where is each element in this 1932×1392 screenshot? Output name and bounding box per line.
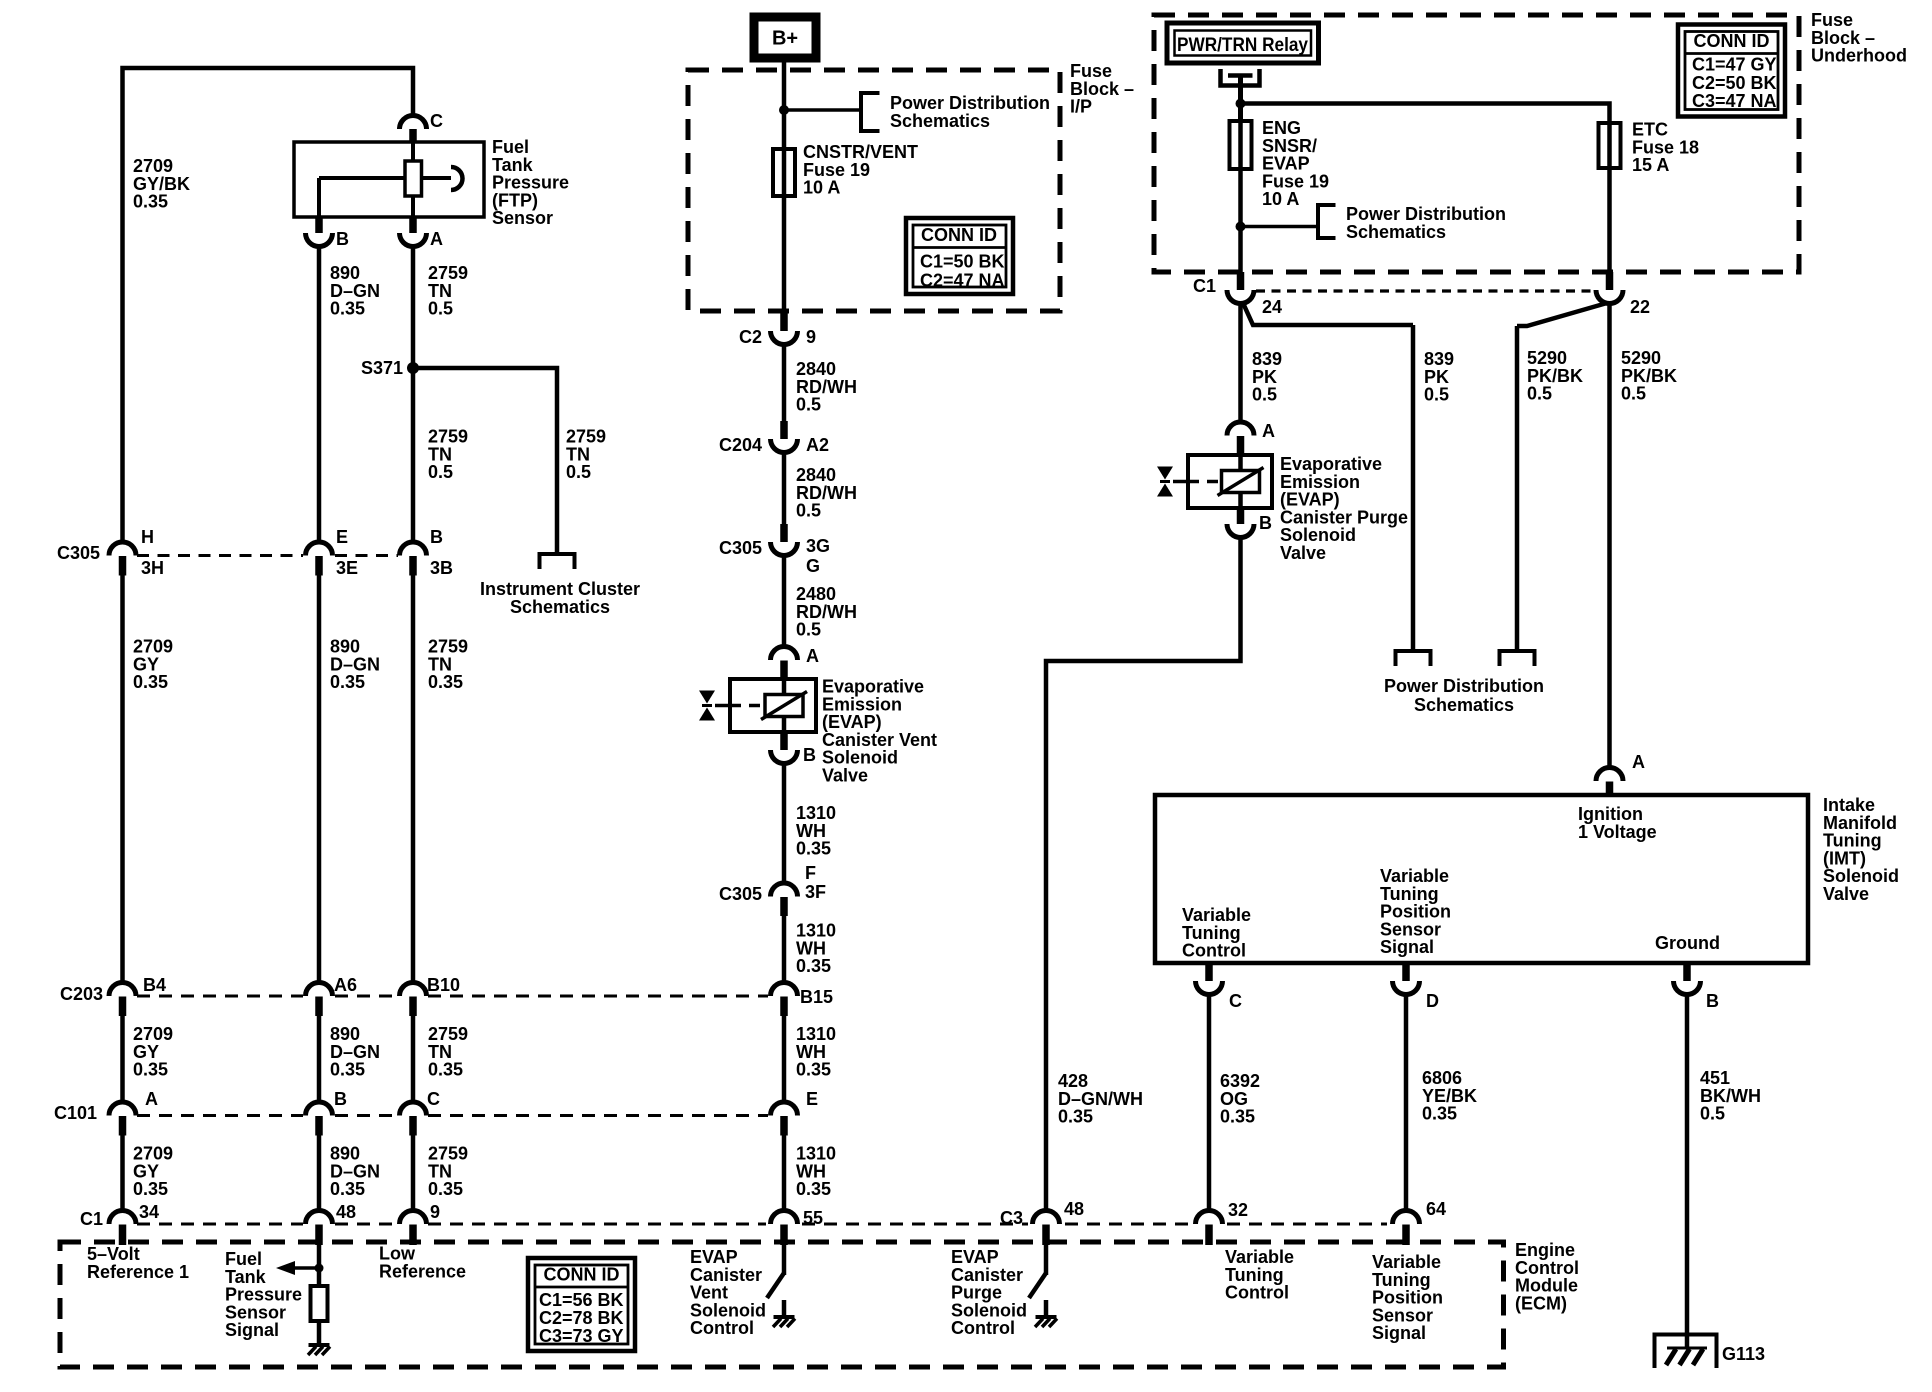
connector pin B of IMT valve (1674, 963, 1720, 1011)
label: EVAP Canister Purge Solenoid Control (951, 1247, 1027, 1338)
wire label 2840 RD/WH 0.5 (2) (796, 465, 857, 521)
wire label 890 D-GN 0.35 (3) (330, 1144, 380, 1200)
fuse block - I/P dashed box (688, 70, 1060, 311)
connector C101 pin A (109, 1089, 158, 1136)
label: Variable Tuning Control (ECM) (1225, 1247, 1294, 1303)
connector C1 pin 9 (400, 1202, 441, 1245)
wire to power distribution reference (underhood) (1241, 225, 1319, 229)
svg-text:C2=47 NA: C2=47 NA (920, 271, 1005, 291)
wire relay output to ETC fuse (1241, 104, 1610, 124)
wire 2709 GY (C203 to C101) (120, 1016, 125, 1103)
connector C1 pin 22 (underhood) (1596, 272, 1650, 317)
svg-text:B: B (334, 1089, 347, 1109)
connector C101 pin B (306, 1089, 348, 1136)
wire label 6392 OG 0.35 (1220, 1071, 1260, 1127)
intake manifold tuning (IMT) solenoid valve box (1155, 795, 1808, 963)
wire C1 underhood dotted connector line (1256, 289, 1594, 292)
wire 2709 GY (C305 to C203) (120, 575, 125, 983)
svg-text:Signal: Signal (225, 1320, 279, 1340)
svg-text:48: 48 (1064, 1199, 1084, 1219)
svg-text:C101: C101 (54, 1103, 97, 1123)
label: Evaporative Emission (EVAP) Canister Vent Solenoid Valve (822, 677, 937, 786)
svg-text:A: A (430, 229, 443, 249)
label: EVAP Canister Vent Solenoid Control (690, 1247, 766, 1338)
svg-text:5–Volt: 5–Volt (87, 1244, 140, 1264)
connector pin D of IMT valve (1393, 963, 1440, 1011)
wire 890 D-GN (C305 to C203) (317, 575, 322, 983)
wire label 839 PK 0.5 (right) (1424, 349, 1454, 405)
svg-text:S371: S371 (361, 358, 403, 378)
svg-text:Power Distribution: Power Distribution (1384, 676, 1544, 696)
EVAP canister purge solenoid valve L2 (1157, 455, 1272, 508)
svg-text:Sensor: Sensor (492, 208, 553, 228)
svg-text:C2: C2 (739, 327, 762, 347)
label: 5-Volt Reference 1 (ECM) (87, 1244, 189, 1282)
svg-text:Signal: Signal (1380, 937, 1434, 957)
EVAP canister vent solenoid valve L1 (699, 679, 816, 732)
wire label 2759 TN 0.5 (right) (566, 427, 606, 483)
wire label 2759 TN 0.35 (428, 637, 468, 693)
connector C305 pin B (400, 527, 454, 578)
svg-text:64: 64 (1426, 1199, 1446, 1219)
svg-text:0.35: 0.35 (133, 1179, 168, 1199)
svg-text:9: 9 (430, 1202, 440, 1222)
ground G113 (1655, 1335, 1766, 1369)
wire ETC fuse down (1607, 168, 1612, 272)
relay output contact symbol (1221, 69, 1260, 121)
svg-text:Signal: Signal (1372, 1323, 1426, 1343)
connector pin B of FTP sensor (306, 217, 350, 249)
svg-text:32: 32 (1228, 1200, 1248, 1220)
svg-text:E: E (336, 527, 348, 547)
svg-text:CONN ID: CONN ID (544, 1265, 620, 1285)
svg-text:C2=50 BK: C2=50 BK (1692, 73, 1777, 93)
svg-text:0.35: 0.35 (428, 672, 463, 692)
off-page reference: Power Distribution Schematics (I/P) (861, 93, 1050, 131)
svg-text:PWR/TRN Relay: PWR/TRN Relay (1177, 35, 1308, 56)
svg-text:B+: B+ (772, 28, 798, 50)
svg-text:C2=78 BK: C2=78 BK (539, 1308, 624, 1328)
wire 839 PK to purge solenoid (1238, 304, 1243, 424)
svg-text:A: A (806, 646, 819, 666)
battery feed B+ (754, 17, 816, 58)
connector C203 pin A6 (306, 975, 358, 1016)
svg-text:0.35: 0.35 (428, 1179, 463, 1199)
svg-text:G: G (806, 556, 820, 576)
svg-text:Schematics: Schematics (1346, 222, 1446, 242)
junction dot (B+ feed) (779, 105, 789, 115)
svg-text:Reference: Reference (379, 1262, 466, 1282)
svg-text:C3=47 NA: C3=47 NA (1692, 91, 1777, 111)
junction dot (relay output) (1236, 99, 1246, 109)
wire label 2709 GY 0.35 (2) (133, 1024, 173, 1080)
wire C203 dashed connector line (137, 995, 768, 998)
wire C101 dashed connector line (137, 1114, 768, 1117)
label: Fuse Block - I/P (1070, 61, 1134, 117)
wire 1310 WH (solenoid to C305) (782, 764, 787, 884)
svg-text:F: F (805, 863, 816, 883)
PWR/TRN relay box (1167, 23, 1319, 63)
fuse block - underhood dashed box (1154, 15, 1799, 272)
svg-text:Underhood: Underhood (1811, 46, 1907, 66)
svg-text:10 A: 10 A (803, 178, 840, 198)
label: Intake Manifold Tuning (IMT) Solenoid Valve (1823, 795, 1899, 904)
svg-text:E: E (806, 1089, 818, 1109)
wire label 2709 GY 0.35 (3) (133, 1144, 173, 1200)
svg-text:B: B (1706, 991, 1719, 1011)
label: Variable Tuning Position Sensor Signal (IMT) (1380, 866, 1451, 957)
svg-text:C: C (430, 111, 443, 131)
svg-text:1 Voltage: 1 Voltage (1578, 822, 1657, 842)
svg-text:C3: C3 (1000, 1208, 1023, 1228)
fuse ETC Fuse 18 15A (1599, 120, 1700, 176)
svg-text:Control: Control (1225, 1283, 1289, 1303)
svg-text:A: A (1632, 752, 1645, 772)
wire 2480 RD/WH (782, 556, 787, 648)
wire label 1310 WH 0.35 (4) (796, 1144, 836, 1200)
wire 890 D-GN (C101 to C1) (317, 1135, 322, 1211)
svg-text:B10: B10 (427, 975, 460, 995)
svg-text:55: 55 (803, 1208, 823, 1228)
svg-text:0.5: 0.5 (1252, 385, 1277, 405)
svg-text:Valve: Valve (822, 766, 868, 786)
wire C305 dashed connector line (137, 554, 398, 557)
connector pin A of EVAP vent solenoid (771, 646, 820, 679)
wire label 5290 PK/BK 0.5 (left) (1527, 348, 1583, 404)
connector pin C of FTP sensor (400, 111, 444, 143)
svg-text:0.35: 0.35 (796, 956, 831, 976)
svg-text:Instrument Cluster: Instrument Cluster (480, 579, 640, 599)
svg-text:Power Distribution: Power Distribution (890, 93, 1050, 113)
connector pin 64 (ECM) (1393, 1199, 1447, 1245)
svg-text:34: 34 (139, 1202, 159, 1222)
svg-text:B: B (1259, 513, 1272, 533)
svg-text:Schematics: Schematics (890, 111, 990, 131)
wire 1310 WH (C203 to C101) (782, 1016, 787, 1103)
svg-text:0.35: 0.35 (1220, 1107, 1255, 1127)
svg-text:0.5: 0.5 (1424, 385, 1449, 405)
off-page reference: Power Distribution Schematics (dual) (1384, 651, 1544, 715)
label: Fuel Tank Pressure (FTP) Sensor (492, 137, 569, 228)
svg-text:I/P: I/P (1070, 97, 1092, 117)
connector C305 pin 3G (719, 524, 830, 576)
CONN ID table (ECM) (528, 1258, 635, 1351)
svg-text:D: D (1426, 991, 1439, 1011)
connector C305 pin H (109, 527, 164, 578)
wire 2840 RD/WH (C204 to C305) (782, 453, 787, 525)
svg-text:0.35: 0.35 (1058, 1107, 1093, 1127)
connector C3 pin 48 (ECM) (1000, 1199, 1084, 1245)
connector pin C of IMT valve (1196, 963, 1243, 1011)
svg-text:0.35: 0.35 (796, 1060, 831, 1080)
svg-text:A: A (145, 1089, 158, 1109)
connector pin B of EVAP purge solenoid (1227, 508, 1272, 538)
wire label 6806 YE/BK 0.35 (1422, 1068, 1477, 1124)
connector C1 pin 24 (underhood) (1193, 272, 1282, 317)
svg-text:0.5: 0.5 (1621, 384, 1646, 404)
connector pin A of FTP sensor (400, 217, 444, 249)
svg-text:0.35: 0.35 (133, 1060, 168, 1080)
wire 2759 TN (C101 to C1) (411, 1135, 416, 1211)
svg-text:0.35: 0.35 (133, 192, 168, 212)
wire 5290 PK/BK to IMT valve (1607, 304, 1612, 769)
svg-text:0.35: 0.35 (796, 839, 831, 859)
svg-text:0.35: 0.35 (330, 672, 365, 692)
connector pin A of IMT valve (Ignition 1 Voltage) (1596, 752, 1645, 795)
label: Low Reference (ECM) (379, 1244, 466, 1282)
wire 2759 TN from pin A (411, 247, 416, 543)
svg-text:3E: 3E (336, 558, 358, 578)
wire to power distribution reference (784, 108, 861, 112)
svg-text:Control: Control (690, 1318, 754, 1338)
wire label 839 PK 0.5 (left) (1252, 349, 1282, 405)
svg-text:3G: 3G (806, 536, 830, 556)
wire label 890 D-GN 0.35 (2) (330, 1024, 380, 1080)
svg-text:Valve: Valve (1823, 884, 1869, 904)
wire 6806 YE/BK (1404, 995, 1409, 1212)
junction dot (ENG fuse output) (1236, 222, 1246, 232)
svg-text:Ignition: Ignition (1578, 804, 1643, 824)
wire label 2840 RD/WH 0.5 (796, 359, 857, 415)
fuel tank pressure (FTP) sensor U1 (294, 142, 484, 217)
switch: EVAP canister vent solenoid control driver with ground (767, 1245, 795, 1327)
svg-text:9: 9 (806, 327, 816, 347)
connector C101 pin E (771, 1089, 819, 1136)
svg-text:B15: B15 (800, 987, 833, 1007)
wire 451 BK/WH to G113 (1685, 995, 1690, 1349)
CONN ID table (fuse block underhood) (1678, 25, 1785, 117)
wire label 2759 TN 0.5 (left) (428, 427, 468, 483)
wire label 428 D-GN/WH 0.35 (1058, 1071, 1143, 1127)
svg-text:3F: 3F (805, 882, 826, 902)
svg-text:0.5: 0.5 (796, 395, 821, 415)
wire 1310 WH (C305 to C203) (782, 916, 787, 983)
fuse ENG SNSR/EVAP Fuse 19 10A (1230, 118, 1330, 209)
svg-text:B: B (430, 527, 443, 547)
svg-text:10 A: 10 A (1262, 189, 1299, 209)
wire 2759 TN to instrument cluster (413, 368, 557, 553)
wire 890 D-GN (C203 to C101) (317, 1016, 322, 1103)
connector C305 pin E (306, 527, 359, 578)
wire 1310 WH (C101 to C1) (782, 1135, 787, 1211)
engine control module (ECM) dashed box (60, 1242, 1504, 1367)
svg-text:C: C (1229, 991, 1242, 1011)
svg-text:C305: C305 (719, 884, 762, 904)
svg-text:0.35: 0.35 (133, 672, 168, 692)
off-page reference: Power Distribution Schematics (underhood) (1318, 204, 1506, 242)
svg-text:Ground: Ground (1655, 933, 1720, 953)
svg-text:C1: C1 (1193, 276, 1216, 296)
wire 2759 TN (C203 to C101) (411, 1016, 416, 1103)
connector C203 pin B4 (109, 975, 166, 1016)
svg-text:CONN ID: CONN ID (921, 225, 997, 245)
svg-text:0.5: 0.5 (566, 462, 591, 482)
svg-text:Control: Control (1182, 941, 1246, 961)
label: Evaporative Emission (EVAP) Canister Purge Solenoid Valve (1280, 454, 1408, 563)
splice S371 (361, 358, 419, 378)
svg-text:3H: 3H (141, 558, 164, 578)
svg-text:0.5: 0.5 (428, 299, 453, 319)
label: Ignition 1 Voltage (1578, 804, 1657, 842)
svg-text:G113: G113 (1722, 1344, 1765, 1364)
svg-text:C305: C305 (57, 543, 100, 563)
svg-text:0.35: 0.35 (796, 1179, 831, 1199)
svg-text:Valve: Valve (1280, 543, 1326, 563)
label: Variable Tuning Control (IMT) (1182, 905, 1251, 961)
svg-text:C1=56 BK: C1=56 BK (539, 1290, 624, 1310)
wire 2840 RD/WH (C2 to C204) (782, 345, 787, 422)
svg-text:A6: A6 (334, 975, 357, 995)
svg-text:0.5: 0.5 (796, 620, 821, 640)
wire 6392 OG (1207, 995, 1212, 1212)
wire fuse 19 to C2 (782, 196, 787, 311)
svg-text:0.5: 0.5 (428, 462, 453, 482)
svg-text:Low: Low (379, 1244, 416, 1264)
svg-text:3B: 3B (430, 558, 453, 578)
wire label 1310 WH 0.35 (3) (796, 1024, 836, 1080)
svg-text:48: 48 (336, 1202, 356, 1222)
svg-text:B4: B4 (143, 975, 166, 995)
wire label 2759 TN 0.35 (3) (428, 1144, 468, 1200)
wire B+ into fuse block (782, 58, 787, 149)
svg-text:Schematics: Schematics (510, 597, 610, 617)
label: Fuel Tank Pressure Sensor Signal (ECM) (225, 1249, 302, 1340)
svg-text:C305: C305 (719, 538, 762, 558)
wire label 2709 GY/BK 0.35 (133, 156, 190, 212)
connector C203 pin B15 (771, 983, 834, 1017)
svg-text:0.5: 0.5 (1700, 1104, 1725, 1124)
svg-text:B: B (336, 229, 349, 249)
connector C305 pin F / 3F (719, 863, 826, 916)
label: Fuse Block - Underhood (1811, 10, 1907, 66)
label: Variable Tuning Position Sensor Signal (ECM) (1372, 1252, 1443, 1343)
connector C2 pin 9 (739, 311, 816, 347)
wire label 890 D-GN 0.35 (330, 263, 380, 319)
CONN ID table (fuse block I/P) (906, 218, 1013, 294)
svg-text:C203: C203 (60, 984, 103, 1004)
connector C1 pin 48 (306, 1202, 357, 1245)
svg-text:H: H (141, 527, 154, 547)
svg-text:B: B (803, 745, 816, 765)
svg-text:C204: C204 (719, 435, 762, 455)
svg-text:0.5: 0.5 (796, 501, 821, 521)
svg-text:Control: Control (951, 1318, 1015, 1338)
connector C203 pin B10 (400, 975, 461, 1016)
connector C1 pin 34 (109, 1202, 159, 1245)
svg-text:(ECM): (ECM) (1515, 1293, 1567, 1313)
svg-text:C1: C1 (80, 1209, 103, 1229)
svg-text:A: A (1262, 421, 1275, 441)
off-page reference: Instrument Cluster Schematics (480, 554, 640, 617)
connector C1 pin 55 (771, 1208, 824, 1245)
svg-text:0.35: 0.35 (330, 299, 365, 319)
connector C101 pin C (400, 1089, 441, 1136)
wire label 2709 GY 0.35 (133, 637, 173, 693)
switch: EVAP canister purge solenoid control driver with ground (1029, 1245, 1057, 1327)
svg-text:C1=50 BK: C1=50 BK (920, 252, 1005, 272)
svg-text:C1=47 GY: C1=47 GY (1692, 55, 1777, 75)
wire 5290 PK/BK branch to power distribution (1517, 303, 1607, 651)
wire 428 D-GN/WH purge drive to ECM (1046, 538, 1241, 1212)
wire C1 dashed connector line (137, 1223, 1387, 1226)
wire label 2759 TN 0.5 (pin A drop) (428, 263, 468, 319)
svg-text:Schematics: Schematics (1414, 695, 1514, 715)
wire 839 PK branch to power distribution (1243, 303, 1413, 651)
wire label 1310 WH 0.35 (796, 803, 836, 859)
connector C204 pin A2 (719, 421, 829, 455)
svg-text:A2: A2 (806, 435, 829, 455)
svg-text:0.35: 0.35 (1422, 1104, 1457, 1124)
svg-text:0.35: 0.35 (428, 1060, 463, 1080)
ECM fuel tank pressure sensor signal network: arrow, pull-up resistor, ground (276, 1245, 330, 1355)
wire top loop 2709 GY/BK (123, 68, 414, 540)
svg-text:0.5: 0.5 (1527, 384, 1552, 404)
svg-text:22: 22 (1630, 297, 1650, 317)
wire label 1310 WH 0.35 (2) (796, 921, 836, 977)
svg-text:15 A: 15 A (1632, 155, 1669, 175)
svg-text:0.35: 0.35 (330, 1060, 365, 1080)
svg-text:C3=73 GY: C3=73 GY (539, 1326, 624, 1346)
svg-text:Reference 1: Reference 1 (87, 1262, 189, 1282)
wire label 451 BK/WH 0.5 (1700, 1068, 1761, 1124)
svg-text:CONN ID: CONN ID (1694, 31, 1770, 51)
connector pin A of EVAP purge solenoid (1227, 421, 1275, 455)
wire 2709 GY (C101 to C1) (120, 1135, 125, 1211)
svg-text:Power Distribution: Power Distribution (1346, 204, 1506, 224)
connector pin 32 (ECM) (1196, 1200, 1249, 1245)
label: Engine Control Module (ECM) (1515, 1240, 1579, 1313)
wire ENG fuse down (1238, 169, 1243, 272)
wire label 5290 PK/BK 0.5 (right) (1621, 348, 1677, 404)
wire 2759 TN (C305 to C203) (411, 575, 416, 983)
wire 890 D-GN from pin B (317, 247, 322, 543)
fuse CNSTR/VENT Fuse 19 10A (773, 142, 918, 198)
wire label 890 D-GN 0.35 (330, 637, 380, 693)
wire label 2759 TN 0.35 (2) (428, 1024, 468, 1080)
svg-text:0.35: 0.35 (330, 1179, 365, 1199)
svg-text:24: 24 (1262, 297, 1282, 317)
svg-text:C: C (427, 1089, 440, 1109)
connector pin B of EVAP vent solenoid (771, 732, 817, 765)
wire label 2480 RD/WH 0.5 (796, 584, 857, 640)
